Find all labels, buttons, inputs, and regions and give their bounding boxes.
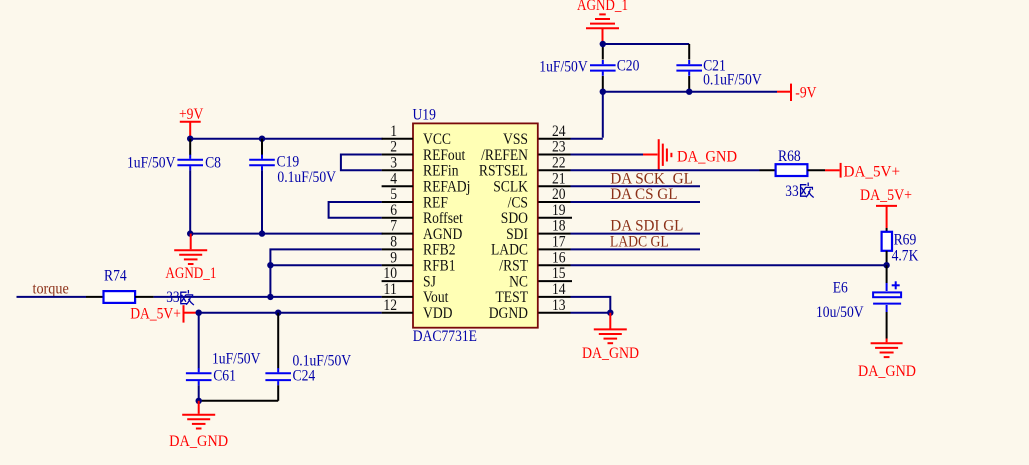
ground DA_GND (below E6) [858,339,916,380]
node: /RST junction [883,262,889,268]
node: VDD junction at C61 [196,310,202,316]
svg-text:/CS: /CS [508,194,528,211]
resistor R74 [104,268,136,303]
wire: VDD net to pin 12 [199,312,382,314]
node: C20 bottom junction [600,89,606,95]
svg-text:2: 2 [390,139,397,156]
wire: pin 23 /REFEN net [571,154,644,156]
ground DA_GND (below C61) [169,401,228,450]
svg-text:33: 33 [166,289,179,306]
svg-text:18: 18 [552,218,566,235]
svg-text:17: 17 [552,234,566,251]
capacitor C21 [676,58,762,89]
ground DA_GND (below pin 13) [582,313,639,362]
wire: top junction down to C20 [602,43,604,60]
wire: VSS vertical down to pin 24 [602,92,604,138]
svg-text:Vout: Vout [423,289,449,306]
IC U19 DAC7731E body [413,107,538,345]
svg-text:0.1uF/50V: 0.1uF/50V [277,169,336,186]
svg-text:8: 8 [390,234,397,251]
svg-text:1uF/50V: 1uF/50V [539,58,588,75]
svg-text:23: 23 [552,139,566,156]
node: Vout junction [267,294,273,300]
pin 1 VCC [382,123,451,148]
node: AGND junction at C19 [259,230,265,236]
pin 12 VDD [382,297,453,322]
svg-text:DA_GND: DA_GND [858,363,916,380]
wire: C20 lower lead [602,76,604,91]
svg-text:SDO: SDO [501,210,528,227]
node: junction at C8 top [187,136,193,142]
svg-text:/REFEN: /REFEN [481,147,528,164]
pin 9 RFB1 [382,249,456,274]
pin 16 /RST [499,249,570,274]
pin 11 Vout [382,281,449,306]
svg-text:RFB1: RFB1 [423,258,456,275]
svg-text:DA_GND: DA_GND [677,149,737,166]
svg-text:+9V: +9V [179,106,204,123]
svg-text:1: 1 [390,123,397,140]
wire: pin 18 SDI net [571,233,701,235]
svg-text:R68: R68 [778,148,801,165]
capacitor C8 [127,139,221,233]
svg-text:24: 24 [552,123,566,140]
power ground DA_GND (pin 23, sideways) [643,139,737,171]
svg-text:RFB2: RFB2 [423,242,456,259]
node: ground junction below C61 [196,398,202,404]
pin 23 /REFEN [481,139,570,164]
svg-text:33: 33 [785,183,798,200]
wire: top horizontal to C21 [603,43,689,45]
wire: C21 lower lead [688,76,690,91]
svg-text:AGND_1: AGND_1 [165,265,216,282]
svg-text:REFout: REFout [423,147,466,164]
pin 8 RFB2 [382,234,456,259]
svg-text:E6: E6 [833,280,848,297]
pin 13 DGND [489,297,571,322]
node torque : input wire [17,281,87,298]
capacitor C61 [186,313,261,401]
power port DA_5V+ (at R68) [825,163,900,180]
svg-text:10: 10 [383,265,397,282]
pin 2 REFout [382,139,466,164]
svg-text:DA_GND: DA_GND [169,433,228,450]
wire: pin 17 LADC net [571,248,701,250]
pin 18 SDI [506,218,570,243]
pin 17 LADC [491,234,571,259]
wire: VSS bottom horizontal [603,91,777,93]
capacitor C19 [249,139,336,233]
wire: RFB2/RFB1 to Vout net [270,249,381,297]
wire: RFB1 horizontal [270,264,381,266]
wire: pin 22 RSTSEL net [571,169,760,171]
svg-text:torque: torque [33,281,69,298]
wire: pin 13 DGND net [571,312,611,314]
svg-text:DGND: DGND [489,305,528,322]
svg-text:VDD: VDD [423,305,453,322]
svg-text:13: 13 [552,297,566,314]
svg-text:1uF/50V: 1uF/50V [212,351,261,368]
svg-text:DA_5V+: DA_5V+ [860,187,912,204]
svg-text:21: 21 [552,170,566,187]
svg-text:-9V: -9V [795,84,817,101]
svg-text:0.1uF/50V: 0.1uF/50V [703,72,762,89]
wire: C24 bottom to C61 bottom [199,400,279,402]
wire: R68 right lead [807,169,825,171]
svg-text:REFADj: REFADj [423,179,470,196]
svg-text:19: 19 [552,202,566,219]
pin 4 REFADj [382,170,471,195]
wire: C21 upper lead [688,44,690,60]
svg-text:LADC: LADC [491,242,528,259]
svg-text:C20: C20 [617,58,640,75]
pin 7 AGND [382,218,463,243]
svg-text:DAC7731E: DAC7731E [413,328,477,345]
power port AGND_1 (top) [577,0,628,43]
svg-text:C24: C24 [293,367,316,384]
wire: pin 16 /RST net [571,264,887,266]
svg-text:TEST: TEST [496,289,529,306]
pin 6 Roffset [382,202,464,227]
power port DA_5V+ (above R69) [860,187,912,228]
value label 33ohm of R74 [166,289,193,306]
pin 21 SCLK [493,170,570,195]
pin 24 VSS [503,123,566,148]
svg-text:VCC: VCC [423,131,451,148]
wire: lead right of R74 [135,296,154,298]
svg-text:LADC GL: LADC GL [610,234,669,251]
node: top junction [600,41,606,47]
wire: +9V net to pin 1 [190,138,382,140]
pin 20 /CS [508,186,571,211]
wire: loop pin2-pin3 [341,155,382,171]
svg-text:22: 22 [552,154,566,171]
pin 14 TEST [496,281,571,306]
svg-text:DA SCK GL: DA SCK GL [610,170,693,187]
wire: R69 top lead [886,228,888,232]
node: RFB1 junction [267,262,273,268]
pin 10 SJ [382,265,436,290]
svg-text:DA CS GL: DA CS GL [610,186,677,203]
svg-text:6: 6 [390,202,397,219]
svg-text:DA SDI GL: DA SDI GL [610,218,683,235]
resistor R68 [776,148,814,200]
svg-text:3: 3 [390,154,397,171]
wire: pin 24 horizontal extension [539,138,571,140]
svg-text:9: 9 [390,249,397,266]
svg-text:AGND: AGND [423,226,462,243]
svg-text:VSS: VSS [503,131,528,148]
svg-text:U19: U19 [413,107,436,124]
wire: AGND net to pin 7 [190,233,382,235]
svg-text:4: 4 [390,170,397,187]
svg-text:R74: R74 [104,268,127,285]
svg-text:NC: NC [509,273,528,290]
svg-text:C61: C61 [213,367,236,384]
pin 19 SDO [501,202,572,227]
power port DA_5V+ (left) [130,305,199,322]
svg-text:RSTSEL: RSTSEL [479,163,528,180]
svg-text:14: 14 [552,281,566,298]
svg-text:7: 7 [390,218,397,235]
svg-text:5: 5 [390,186,397,203]
svg-text:REFin: REFin [423,163,459,180]
node: junction at C19 top [259,136,265,142]
svg-text:15: 15 [552,265,566,282]
svg-text:C8: C8 [205,155,221,172]
wire: pin 20 /CS net [571,201,701,203]
pin 22 RSTSEL [479,154,571,179]
svg-text:4.7K: 4.7K [892,247,919,264]
ground AGND_1 (below C8) [165,234,216,282]
pin 3 REFin [382,154,459,179]
capacitor E6 (electrolytic) [816,265,901,338]
svg-text:12: 12 [383,297,397,314]
node: AGND junction at C8 [187,230,193,236]
svg-text:AGND_1: AGND_1 [577,0,628,14]
svg-text:16: 16 [552,249,566,266]
pin 15 NC [509,265,572,290]
svg-text:DA_5V+: DA_5V+ [130,305,181,322]
wire: R69 bottom lead [886,251,888,264]
svg-text:11: 11 [383,281,397,298]
power port +9V [179,106,204,137]
node: DGND junction [607,310,613,316]
wire: lead left of R74 [86,296,104,298]
capacitor C20 [539,58,639,76]
svg-text:Roffset: Roffset [423,210,463,227]
wire: pin 21 SCLK net [571,185,701,187]
node: VDD junction at C24 [275,310,281,316]
svg-text:SCLK: SCLK [493,179,528,196]
svg-text:20: 20 [552,186,566,203]
wire: Vout net to pin 11 [154,296,382,298]
svg-text:10u/50V: 10u/50V [816,304,864,321]
node: C21 bottom junction [686,89,692,95]
resistor R69 [882,232,919,265]
svg-text:DA_5V+: DA_5V+ [844,163,901,180]
pin 5 REF [382,186,448,211]
svg-text:/RST: /RST [499,258,528,275]
capacitor C24 [265,313,351,401]
svg-text:R69: R69 [894,232,917,249]
svg-text:SJ: SJ [423,273,436,290]
wire: pin 14 TEST net [571,297,611,313]
svg-text:1uF/50V: 1uF/50V [127,155,176,172]
svg-text:DA_GND: DA_GND [582,345,639,362]
wire: R68 left lead [760,169,777,171]
svg-text:C19: C19 [277,154,300,171]
svg-text:SDI: SDI [506,226,528,243]
wire: loop pin5-pin6 [329,202,382,218]
power port -9V [777,84,817,102]
svg-text:REF: REF [423,194,448,211]
